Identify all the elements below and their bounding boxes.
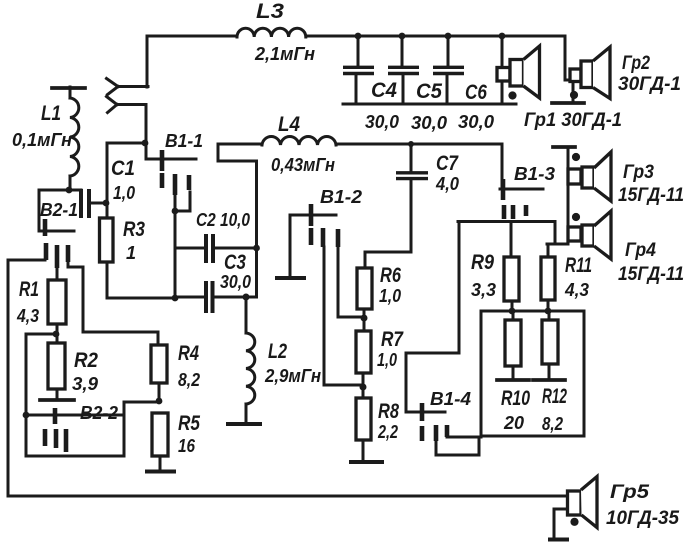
svg-text:15ГД-11: 15ГД-11 [618, 185, 684, 206]
svg-text:10ГД-35: 10ГД-35 [606, 508, 679, 529]
svg-text:0,1мГн: 0,1мГн [12, 130, 72, 150]
svg-text:30,0: 30,0 [458, 112, 494, 132]
svg-text:2,1мГн: 2,1мГн [254, 44, 315, 64]
svg-text:Гр4: Гр4 [625, 240, 656, 261]
svg-text:C2 10,0: C2 10,0 [196, 210, 250, 230]
svg-text:R3: R3 [123, 218, 145, 241]
svg-text:2,9мГн: 2,9мГн [264, 366, 321, 386]
svg-text:В2-1: В2-1 [40, 200, 78, 220]
svg-text:20: 20 [503, 413, 524, 433]
svg-text:В1-2: В1-2 [320, 187, 362, 207]
svg-text:30,0: 30,0 [411, 113, 447, 133]
svg-text:R2: R2 [74, 349, 98, 372]
svg-text:Гр2: Гр2 [622, 53, 650, 74]
svg-text:C3: C3 [224, 251, 246, 274]
svg-text:1,0: 1,0 [113, 183, 135, 203]
svg-text:R1: R1 [19, 278, 39, 301]
svg-text:В1-1: В1-1 [165, 131, 203, 151]
svg-text:30,0: 30,0 [220, 272, 251, 292]
svg-text:R12: R12 [542, 385, 567, 408]
svg-text:1,0: 1,0 [377, 350, 397, 370]
svg-text:R11: R11 [565, 254, 592, 277]
svg-text:Гр3: Гр3 [623, 162, 654, 183]
svg-text:15ГД-11: 15ГД-11 [618, 264, 684, 285]
svg-text:R8: R8 [378, 400, 399, 423]
svg-text:2,2: 2,2 [377, 422, 398, 442]
svg-text:R4: R4 [178, 342, 199, 365]
svg-text:C7: C7 [436, 152, 459, 175]
svg-text:8,2: 8,2 [178, 370, 200, 390]
svg-text:В2-2: В2-2 [80, 403, 118, 423]
svg-text:30ГД-1: 30ГД-1 [618, 74, 681, 95]
svg-text:30,0: 30,0 [365, 112, 399, 132]
svg-text:C4: C4 [371, 79, 397, 102]
svg-text:R10: R10 [501, 387, 530, 410]
svg-text:Гр1 30ГД-1: Гр1 30ГД-1 [524, 110, 622, 131]
svg-text:В1-3: В1-3 [514, 164, 555, 184]
svg-text:4,3: 4,3 [16, 306, 39, 326]
svg-text:L1: L1 [41, 102, 61, 125]
svg-text:R5: R5 [178, 412, 200, 435]
svg-text:C6: C6 [465, 81, 487, 104]
svg-text:R6: R6 [380, 264, 401, 287]
svg-text:C5: C5 [416, 80, 442, 103]
svg-text:3,9: 3,9 [72, 374, 98, 394]
svg-text:R9: R9 [471, 251, 494, 274]
svg-text:L3: L3 [256, 0, 284, 23]
svg-text:3,3: 3,3 [471, 280, 496, 300]
svg-text:В1-4: В1-4 [430, 389, 471, 409]
svg-text:1,0: 1,0 [379, 286, 401, 306]
svg-text:L4: L4 [278, 113, 300, 136]
svg-text:L2: L2 [268, 340, 287, 363]
svg-text:16: 16 [178, 436, 196, 456]
svg-text:0,43мГн: 0,43мГн [271, 155, 335, 175]
svg-text:1: 1 [126, 243, 136, 263]
svg-text:Гр5: Гр5 [610, 482, 649, 503]
svg-text:R7: R7 [381, 328, 404, 351]
svg-text:4,0: 4,0 [435, 174, 459, 194]
svg-text:C1: C1 [111, 157, 135, 180]
svg-text:8,2: 8,2 [542, 414, 563, 434]
svg-text:4,3: 4,3 [564, 280, 589, 300]
